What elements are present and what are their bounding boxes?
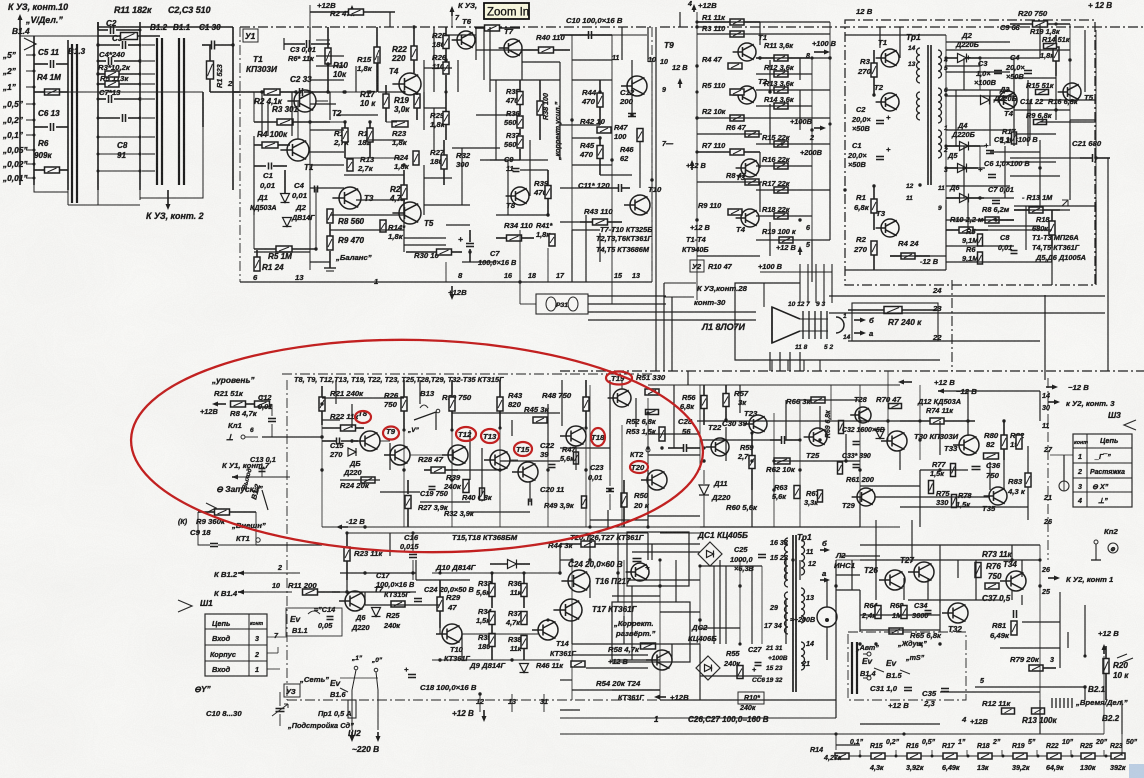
- wire: [351, 404, 353, 428]
- transistor T25: [809, 428, 827, 446]
- resistor R23: [1111, 753, 1125, 759]
- wire: [316, 55, 344, 57]
- wire: [356, 199, 404, 201]
- resistor R19: [1013, 753, 1027, 759]
- block border power: [845, 20, 1095, 285]
- wire: [571, 230, 573, 282]
- wire: [756, 165, 812, 167]
- wire: [799, 560, 801, 580]
- transistor T6: [457, 31, 475, 49]
- wire: [380, 491, 420, 493]
- transistor T10b: [442, 624, 462, 644]
- wire: [800, 399, 860, 401]
- wire: [458, 469, 500, 471]
- wire: [335, 380, 337, 404]
- wire: [572, 59, 612, 61]
- resistor R14: [835, 753, 849, 759]
- transistor T19: [613, 389, 631, 407]
- wire: [835, 560, 837, 718]
- wire: [322, 419, 340, 421]
- CRT cathode hook: [836, 317, 844, 333]
- wire: [560, 34, 612, 36]
- power block extra wires: [946, 41, 1010, 43]
- wire: [756, 89, 830, 91]
- wires bottom right: [860, 559, 1040, 561]
- transistor T22: [711, 438, 729, 456]
- red circle T12: [456, 427, 476, 441]
- wire: [489, 27, 491, 92]
- B2.2 resistor chain: [836, 755, 1122, 757]
- wire: [572, 654, 648, 656]
- wire: [1121, 700, 1123, 734]
- wire: [989, 462, 991, 490]
- wire: [647, 533, 649, 560]
- wire: [560, 187, 600, 189]
- wire: [946, 49, 1070, 51]
- wire: [769, 222, 771, 256]
- wire: [366, 139, 404, 141]
- top bus: [98, 26, 233, 28]
- wire: [572, 229, 600, 231]
- wire: [941, 390, 1040, 392]
- wire: [756, 239, 830, 241]
- wire: [1000, 647, 1060, 649]
- wire: [310, 103, 336, 105]
- wire: [462, 261, 496, 263]
- capacitor C7: [108, 95, 110, 103]
- wire: [751, 490, 753, 527]
- wire: [785, 400, 787, 440]
- transistor P-T3: [881, 219, 899, 237]
- wire: [697, 21, 830, 23]
- bottom right extra wires: [860, 544, 1040, 546]
- wire: [975, 560, 977, 600]
- bottom mid extra wires: [632, 551, 700, 553]
- wire: [470, 511, 530, 513]
- transistor T12: [448, 445, 468, 465]
- wire: [330, 229, 404, 231]
- wire: [779, 352, 781, 371]
- wire: [671, 644, 673, 660]
- resistor R16: [907, 753, 921, 759]
- wire: [963, 146, 965, 198]
- wire: [697, 117, 830, 119]
- wire: [309, 27, 311, 92]
- wire: [490, 79, 560, 81]
- wire: [927, 578, 929, 600]
- scrollbar chip bottom right: [1129, 764, 1144, 778]
- transistor U2-T1: [738, 43, 756, 61]
- wire: [521, 50, 523, 80]
- wire: [469, 430, 471, 480]
- wire: [1011, 590, 1013, 600]
- wire: [476, 114, 520, 116]
- wire: [1014, 209, 1070, 211]
- dashdot vertical right of crt: [951, 280, 953, 371]
- wire: [799, 90, 801, 130]
- power block verticals: [945, 35, 947, 200]
- resistor R1 523: [207, 61, 214, 79]
- CRT b a arrows: [854, 319, 863, 321]
- wire: [547, 404, 549, 456]
- wire: [799, 58, 801, 80]
- transistor T8tr: [360, 431, 380, 451]
- wire: [1021, 560, 1023, 577]
- wire: [495, 80, 497, 115]
- wire: [1040, 121, 1096, 123]
- wire: [262, 436, 322, 438]
- wire: [389, 12, 391, 27]
- transistor T29: [857, 488, 875, 506]
- wire: [560, 709, 580, 711]
- wire: [756, 189, 830, 191]
- wire: [819, 406, 821, 430]
- junction dots scatter: [308, 90, 311, 93]
- wire: [845, 434, 847, 462]
- switch contact ticks: [142, 44, 155, 46]
- Zoom In button: [484, 3, 529, 19]
- wire: [860, 614, 940, 616]
- rail to wafer: [67, 40, 69, 190]
- wire: [845, 34, 946, 36]
- wire: [378, 91, 404, 93]
- wire: [679, 12, 681, 27]
- wire: [1044, 295, 1046, 380]
- wire: [1039, 700, 1041, 734]
- capacitor C8: [122, 114, 124, 122]
- wire: [1107, 158, 1109, 371]
- U3 box label: [284, 684, 300, 697]
- resistor R25: [1081, 753, 1095, 759]
- resistor R22: [1047, 753, 1061, 759]
- wire: [520, 169, 548, 171]
- block border U1: [240, 26, 652, 28]
- wire: [648, 454, 700, 456]
- wire: [607, 510, 609, 527]
- wire: [365, 604, 440, 606]
- mains arrows: [351, 732, 353, 739]
- wire: [811, 240, 813, 282]
- wire: [322, 397, 404, 399]
- transistor T2: [294, 90, 316, 112]
- wire: [623, 616, 625, 644]
- rail right of middle column: [139, 22, 141, 190]
- wire: [769, 104, 771, 144]
- transistor T13: [490, 450, 510, 470]
- wire: [687, 371, 689, 385]
- transistor T1: [287, 139, 309, 161]
- wire: [836, 589, 860, 591]
- band bottom rail: [322, 526, 700, 528]
- wire: [433, 27, 435, 92]
- wire: [346, 580, 348, 592]
- wire: [600, 174, 632, 176]
- wire: [829, 160, 831, 240]
- wire: [446, 34, 476, 36]
- wire: [756, 73, 812, 75]
- wire: [946, 219, 1014, 221]
- transistor T20: [647, 470, 667, 490]
- wire: [940, 691, 1040, 693]
- wire: [416, 579, 470, 581]
- transistor T9tr: [390, 445, 410, 465]
- transistor T27: [914, 562, 934, 582]
- wire: [423, 92, 425, 130]
- wire: [1051, 248, 1053, 285]
- wire: [253, 136, 255, 215]
- wire: [419, 380, 421, 404]
- transistor T5: [399, 202, 421, 224]
- wire: [261, 92, 263, 136]
- transistor P-T5: [1063, 83, 1081, 101]
- wire: [759, 22, 761, 45]
- long dashdot separator y371: [560, 370, 1144, 372]
- wires top sweep: [700, 384, 900, 386]
- input wire row: [240, 91, 264, 93]
- wire: [254, 251, 310, 253]
- wire: [673, 385, 675, 448]
- wire: [1063, 455, 1065, 481]
- wire: [529, 482, 531, 502]
- wire input arrow: [19, 17, 21, 24]
- U2 label box: [690, 260, 704, 272]
- wire: [769, 352, 771, 371]
- wire: [648, 433, 700, 435]
- wire: [1027, 487, 1029, 520]
- transistor P-T4: [999, 91, 1017, 109]
- wire: [589, 581, 591, 598]
- wire: [799, 352, 801, 371]
- switch rail: [33, 36, 35, 185]
- wire: [859, 590, 861, 632]
- capacitor C2: [110, 26, 112, 34]
- wire: [756, 57, 830, 59]
- transistor T35: [989, 487, 1007, 505]
- wire: [310, 261, 330, 263]
- wire: [875, 560, 877, 600]
- wire: [586, 667, 648, 669]
- wire: [836, 744, 860, 746]
- wire: [946, 145, 985, 147]
- table Sh3: [1073, 434, 1132, 507]
- wire: [511, 420, 513, 436]
- red circle T18: [591, 428, 605, 446]
- transistor T18tr: [566, 426, 586, 446]
- wire to U1 left border: [233, 91, 240, 93]
- wires to K U3 kont: [664, 282, 696, 284]
- transistor P-T2: [881, 93, 899, 111]
- wire: [671, 297, 673, 371]
- wire: [759, 152, 761, 168]
- wire: [572, 643, 700, 645]
- wire: [423, 165, 425, 215]
- wire: [500, 460, 560, 462]
- capacitor C3: [122, 41, 124, 49]
- wire: [560, 124, 600, 126]
- +100V arrow: [814, 51, 827, 53]
- wire: [435, 412, 437, 430]
- wire loop lower attenuator: [140, 127, 203, 198]
- wires T9 area: [571, 35, 573, 230]
- wire: [1069, 120, 1071, 200]
- transistor T23: [749, 415, 767, 433]
- wire: [756, 105, 812, 107]
- wire: [1084, 30, 1086, 92]
- bus row 1x: [34, 91, 203, 93]
- wire: [522, 61, 560, 63]
- wire: [589, 533, 591, 560]
- transistor T4 top: [399, 73, 421, 95]
- crt outer box: [735, 283, 940, 360]
- wire: [697, 181, 762, 183]
- wire: [859, 497, 861, 527]
- dash block around avt: [848, 632, 966, 700]
- resistor R18: [978, 753, 992, 759]
- red circle T9: [383, 427, 399, 440]
- wire: [697, 255, 760, 257]
- wire: [403, 215, 405, 252]
- resistor R15: [871, 753, 885, 759]
- wires sweep mid: [589, 385, 591, 527]
- wire: [572, 164, 612, 166]
- band verticals: [321, 425, 323, 527]
- wire: [1027, 446, 1029, 473]
- dash vertical border trig: [286, 380, 288, 700]
- wire: [560, 221, 580, 223]
- wire: [481, 448, 483, 494]
- dashdot vertical right: [1047, 378, 1049, 560]
- wire: [647, 470, 649, 527]
- wire: [900, 506, 1028, 508]
- wire: [588, 311, 756, 313]
- resistor R3: [105, 71, 119, 77]
- wire: [697, 133, 762, 135]
- wire: [1039, 391, 1041, 421]
- wire: [572, 689, 660, 691]
- wire: [899, 27, 901, 58]
- wire: [739, 385, 741, 413]
- wire: [759, 182, 761, 212]
- wire: [756, 215, 812, 217]
- wire: [651, 544, 653, 560]
- transformer arrows: [820, 549, 827, 551]
- wire: [1027, 80, 1029, 146]
- trigger band top border: [282, 373, 652, 375]
- rail middle: [97, 22, 99, 190]
- wire: [329, 92, 331, 120]
- bottom mid boxes: [627, 532, 689, 586]
- wire: [364, 592, 366, 605]
- transistor U2-T4: [741, 209, 759, 227]
- transistor U2-T3: [741, 159, 759, 177]
- wire: [785, 560, 787, 580]
- U1 bottom rail and pins: [253, 214, 255, 216]
- wire: [697, 33, 830, 35]
- wire: [919, 470, 921, 527]
- wire: [1067, 632, 1069, 648]
- wire: [571, 605, 573, 644]
- wire: [756, 143, 830, 145]
- wire: [620, 543, 700, 545]
- transistor T7: [504, 39, 522, 57]
- wire: [648, 515, 700, 517]
- transistors T26b T27b: [631, 563, 649, 581]
- wire: [836, 574, 860, 576]
- wire: [572, 137, 600, 139]
- resistor R17: [943, 753, 957, 759]
- wire: [860, 629, 940, 631]
- delay line RZ1: [536, 294, 588, 314]
- vhod arrow: [206, 503, 216, 513]
- wire: [310, 79, 344, 81]
- wire: [1084, 605, 1086, 656]
- wire: [310, 151, 344, 153]
- wire: [344, 174, 404, 176]
- wire: [635, 398, 637, 427]
- wire: [785, 600, 787, 644]
- wire: [585, 215, 587, 282]
- wire: [719, 560, 721, 644]
- wire: [860, 559, 1040, 561]
- wire: [559, 62, 561, 160]
- CRT electrodes: [802, 311, 804, 339]
- resistor horizontal below R80: [984, 453, 999, 459]
- wire: [420, 501, 470, 503]
- wire: [700, 439, 770, 441]
- red circle T15: [514, 442, 532, 456]
- red circle T20: [630, 461, 648, 473]
- wire: [647, 27, 649, 62]
- wire: [389, 443, 391, 470]
- transistor T26: [885, 570, 905, 590]
- comb B2: [1051, 698, 1053, 708]
- wire: [1013, 58, 1015, 146]
- wire: [575, 446, 577, 470]
- wire: [903, 578, 905, 600]
- transistor P-T1: [881, 49, 899, 67]
- wire: [476, 49, 522, 51]
- wire: [1095, 200, 1097, 285]
- wire: [860, 485, 920, 487]
- CRT plate wires: [829, 295, 1105, 297]
- wire: [700, 526, 860, 528]
- transistor T14: [538, 620, 558, 640]
- wire: [939, 600, 941, 632]
- wire: [946, 71, 1010, 73]
- wire: [490, 159, 548, 161]
- wire: [875, 496, 990, 498]
- wire: [461, 634, 463, 660]
- transistor T8: [511, 187, 529, 205]
- wire: [697, 420, 900, 422]
- wire t14 rows: [432, 572, 560, 574]
- wire: [851, 560, 853, 590]
- chain risers: [859, 750, 861, 756]
- wire: [560, 447, 610, 449]
- CRT tube funnel: [772, 307, 800, 343]
- wire: [389, 533, 391, 556]
- wire: [945, 200, 947, 270]
- wire: [946, 197, 1014, 199]
- wire: [963, 58, 965, 90]
- wires U1 bottom: [445, 262, 447, 282]
- wire: [475, 27, 477, 60]
- transistor T32: [948, 603, 968, 623]
- wire: [789, 352, 791, 371]
- red circle T8: [355, 411, 371, 423]
- wire: [940, 599, 1000, 601]
- wire: [572, 79, 612, 81]
